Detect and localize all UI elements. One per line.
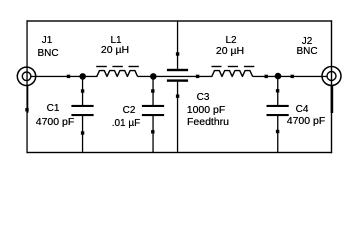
label C3 <box>197 93 210 103</box>
wire vertex marker C4 upper lead <box>276 89 279 92</box>
connector J1 BNC inner circle <box>22 72 31 81</box>
enclosure right border <box>331 20 332 153</box>
wire vertex marker C2 lower lead <box>151 130 154 133</box>
connector J2 BNC inner circle <box>327 72 336 81</box>
label 4700 pF (C4) <box>287 116 326 126</box>
junction node at C4 tap <box>275 73 282 80</box>
label .01 uF (C2) <box>112 119 141 129</box>
capacitor C2 upper lead <box>152 76 153 105</box>
label C4 <box>295 105 308 115</box>
label C1 <box>47 104 60 114</box>
enclosure top border <box>27 20 333 21</box>
label Feedthru (C3) <box>187 117 229 127</box>
left BNC ground stub <box>27 85 29 113</box>
wire vertex marker C4 lower lead <box>276 130 279 133</box>
inductor L1 coil <box>97 71 138 77</box>
label 1000 pF (C3) <box>186 105 225 115</box>
inductor L1 core dashes <box>96 66 107 67</box>
label J1 <box>42 36 53 46</box>
label L2 <box>226 36 237 46</box>
enclosure left border <box>26 20 27 153</box>
label 4700 pF (C1) <box>36 117 75 127</box>
capacitor C2 top plate <box>142 105 164 107</box>
wire L1 to L2 through C3 <box>138 76 213 77</box>
shield partition lower segment <box>177 82 178 153</box>
wire vertex marker on J2 wire <box>291 75 294 78</box>
capacitor C2 lower lead <box>152 116 153 153</box>
connector J1 BNC outer circle <box>17 67 35 85</box>
capacitor C1 top plate <box>71 105 93 107</box>
label BNC (J1) <box>37 49 58 59</box>
wire vertex marker right of C3 <box>196 75 199 78</box>
capacitor C2 bottom plate <box>142 114 164 116</box>
label L1 <box>110 36 121 46</box>
wire vertex marker partition upper <box>176 52 179 55</box>
wire vertex marker on J1 wire <box>67 75 70 78</box>
wire vertex marker partition lower <box>176 95 179 98</box>
wire vertex marker left border <box>25 108 28 111</box>
label 20 uH (L2) <box>216 46 244 56</box>
wire J1 to L1 <box>31 76 98 77</box>
capacitor C4 upper lead <box>277 76 278 105</box>
right BNC ground stub <box>331 85 334 113</box>
label BNC (J2) <box>296 47 317 57</box>
capacitor C4 top plate <box>267 105 289 107</box>
shield partition upper segment <box>177 21 178 69</box>
capacitor C3 feedthru top plate <box>167 69 188 71</box>
label J2 <box>302 37 313 47</box>
capacitor C1 upper lead <box>82 76 83 105</box>
inductor L2 core dashes <box>212 66 222 67</box>
wire vertex marker left of C4 node <box>265 75 268 78</box>
wire vertex marker C1 lower lead <box>81 131 84 134</box>
enclosure bottom border (ground rail) <box>27 152 333 153</box>
connector J2 BNC outer circle <box>322 67 341 86</box>
junction node at C2 tap <box>150 73 157 80</box>
capacitor C4 bottom plate <box>267 114 289 116</box>
capacitor C1 lower lead <box>82 116 83 153</box>
capacitor C4 lower lead <box>277 116 278 153</box>
wire vertex marker C1 upper lead <box>81 89 84 92</box>
capacitor C3 feedthru bottom plate <box>167 79 188 81</box>
wire vertex marker C2 upper lead <box>151 89 154 92</box>
junction node at C1 tap <box>79 73 86 80</box>
label 20 uH (L1) <box>100 45 128 55</box>
wire L2 to J2 <box>253 76 328 77</box>
label C2 <box>123 106 136 116</box>
inductor L2 coil <box>212 71 253 77</box>
capacitor C1 bottom plate <box>71 114 93 116</box>
